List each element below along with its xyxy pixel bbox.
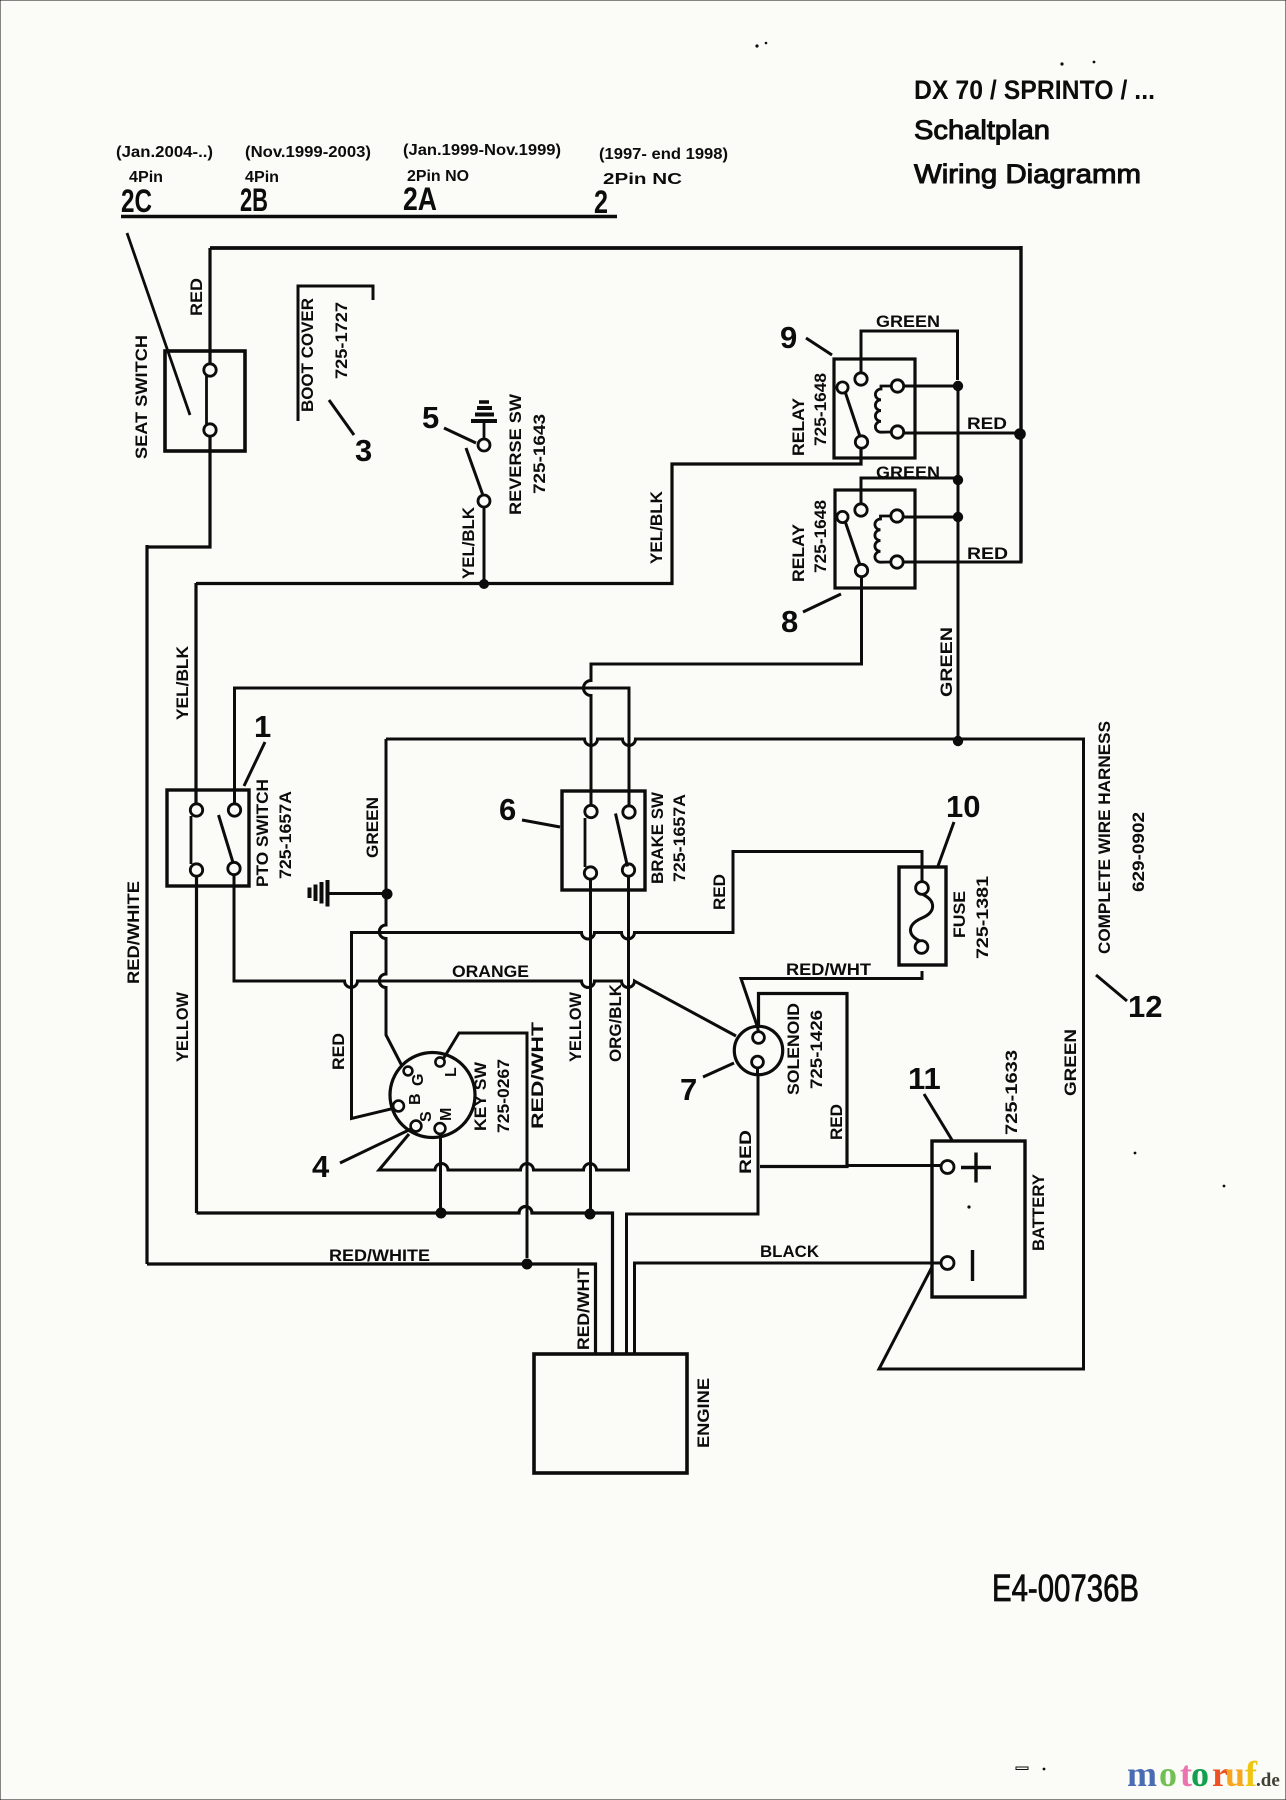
brake pin top-right xyxy=(623,806,635,818)
label RELAY 8 xyxy=(789,523,808,582)
header column 2C xyxy=(116,144,213,219)
label RED seat wire xyxy=(187,278,206,316)
svg-text:o: o xyxy=(1191,1754,1209,1794)
svg-text:8: 8 xyxy=(781,604,798,639)
wire BLACK battery to engine xyxy=(635,1263,942,1354)
PTO pin top-left xyxy=(190,804,202,816)
relay U9 box xyxy=(834,359,915,458)
svg-text:RED: RED xyxy=(967,414,1007,433)
reverse switch top contact xyxy=(478,439,490,451)
wire GREEN horizontal to right rail xyxy=(386,739,1084,1369)
svg-text:COMPLETE WIRE HARNESS: COMPLETE WIRE HARNESS xyxy=(1095,721,1114,954)
label 725-1633 xyxy=(1002,1050,1021,1135)
svg-text:BLACK: BLACK xyxy=(760,1242,820,1261)
relay 9 pin top xyxy=(855,373,867,385)
label 725-1727 xyxy=(332,302,351,379)
svg-text:6: 6 xyxy=(499,792,516,827)
node green relay 9 xyxy=(953,381,963,391)
label RED battery xyxy=(827,1104,846,1140)
svg-text:2: 2 xyxy=(594,184,608,220)
wire green vertical x958 xyxy=(957,386,960,741)
seat switch pin top xyxy=(204,364,216,376)
solenoid box xyxy=(759,994,848,1167)
label 725-0267 xyxy=(494,1059,513,1133)
relay U8 box xyxy=(835,490,915,588)
label RED/WHT key L xyxy=(528,1021,547,1129)
svg-text:725-1727: 725-1727 xyxy=(332,302,351,379)
reverse switch bottom contact xyxy=(478,495,490,507)
svg-text:GREEN: GREEN xyxy=(876,463,940,482)
fuse pin top xyxy=(916,882,929,895)
key pin label S xyxy=(418,1111,435,1122)
key pin G xyxy=(404,1067,413,1076)
svg-text:725-1648: 725-1648 xyxy=(811,373,830,446)
title Wiring Diagramm xyxy=(914,159,1141,189)
relay 8 coil pin top xyxy=(891,510,903,522)
leader 6 xyxy=(522,820,560,827)
leader 3 xyxy=(329,400,354,435)
wire reverse switch down xyxy=(483,507,486,584)
label 725-1648 relay 9 xyxy=(811,373,830,446)
label RED key switch xyxy=(329,1033,348,1070)
brake switch box xyxy=(562,791,645,890)
label PTO SWITCH xyxy=(253,779,272,887)
node bus M xyxy=(436,1208,447,1219)
label 8 xyxy=(781,604,798,639)
relay 8 pin bottom xyxy=(855,564,867,576)
header column 2B xyxy=(240,144,371,218)
svg-text:u: u xyxy=(1225,1754,1245,1794)
svg-text:7: 7 xyxy=(680,1072,697,1107)
label SOLENOID xyxy=(784,1003,803,1095)
svg-text:RELAY: RELAY xyxy=(789,523,808,582)
label GREEN relay 8 xyxy=(876,463,940,482)
svg-text:ORANGE: ORANGE xyxy=(452,962,529,981)
label E4-00736B xyxy=(992,1568,1139,1610)
svg-text:RED/WHITE: RED/WHITE xyxy=(329,1246,430,1265)
svg-text:REVERSE SW: REVERSE SW xyxy=(506,393,525,515)
ground chassis symbol xyxy=(310,880,385,907)
key pin label M xyxy=(438,1108,455,1121)
wire ORANGE from PTO xyxy=(234,875,736,1036)
svg-text:FUSE: FUSE xyxy=(950,891,969,938)
svg-text:RELAY: RELAY xyxy=(789,397,808,456)
svg-text:GREEN: GREEN xyxy=(937,627,956,697)
PTO pin bottom-left xyxy=(190,864,202,876)
label 725-1426 xyxy=(807,1010,826,1089)
key pin label B xyxy=(407,1093,424,1105)
PTO switch arm xyxy=(219,815,234,863)
svg-text:ENGINE: ENGINE xyxy=(694,1378,713,1448)
wire YELLOW from brake down xyxy=(589,879,592,1214)
wire left rail RED/WHITE xyxy=(145,545,148,1264)
label GREEN right rail xyxy=(1061,1029,1080,1096)
seat switch contact bar xyxy=(205,376,208,424)
svg-text:RED: RED xyxy=(827,1104,846,1140)
svg-text:725-1633: 725-1633 xyxy=(1002,1050,1021,1135)
PTO contact bar xyxy=(190,816,193,864)
svg-text:SOLENOID: SOLENOID xyxy=(784,1003,803,1095)
svg-text:RED/WHT: RED/WHT xyxy=(786,960,872,979)
wire GREEN vertical x386 xyxy=(379,739,402,1066)
svg-text:YELLOW: YELLOW xyxy=(173,991,192,1062)
engine box xyxy=(534,1354,687,1473)
wire RED/WHT fuse to solenoid xyxy=(741,971,922,1032)
svg-text:Wiring Diagramm: Wiring Diagramm xyxy=(914,159,1141,189)
relay 9 switch arm xyxy=(846,393,861,437)
label ORANGE xyxy=(452,962,529,981)
wire RED key to fuse xyxy=(352,852,923,1119)
leader 9 xyxy=(806,338,832,355)
label REVERSE SW xyxy=(506,393,525,515)
relay 9 coil pin bottom xyxy=(891,426,903,438)
wire seat switch to left rail xyxy=(147,436,210,547)
label ENGINE xyxy=(694,1378,713,1448)
svg-text:E4-00736B: E4-00736B xyxy=(992,1568,1139,1610)
svg-text:725-1657A: 725-1657A xyxy=(276,791,295,879)
label RED/WHT engine xyxy=(574,1267,593,1350)
label YELLOW brake xyxy=(566,991,585,1062)
svg-text:RED/WHITE: RED/WHITE xyxy=(124,881,143,984)
label BRAKE SW xyxy=(648,791,667,884)
svg-text:3: 3 xyxy=(355,433,372,468)
svg-text:5: 5 xyxy=(422,400,439,435)
relay 8 switch arm xyxy=(846,523,861,566)
label 3 xyxy=(355,433,372,468)
reverse switch arm xyxy=(466,448,483,494)
svg-text:2C: 2C xyxy=(121,183,152,219)
label YELLOW left rail xyxy=(173,991,192,1062)
wire bus yellow y1213 xyxy=(197,1207,613,1355)
svg-text:KEY SW: KEY SW xyxy=(471,1061,490,1131)
title DX 70 / SPRINTO xyxy=(914,75,1155,105)
relay 8 pin top xyxy=(855,504,867,516)
node bus yellow xyxy=(585,1209,596,1220)
label 725-1657A brake xyxy=(670,794,689,882)
brake pin top-left xyxy=(585,805,597,817)
svg-text:(1997- end 1998): (1997- end 1998) xyxy=(599,146,728,163)
paper specks xyxy=(755,42,1225,1771)
svg-text:RED/WHT: RED/WHT xyxy=(528,1021,547,1129)
header column 2 xyxy=(594,146,728,220)
header underline xyxy=(121,215,617,218)
brake contact bar xyxy=(584,818,587,867)
relay 8 coil xyxy=(875,516,891,562)
label BLACK xyxy=(760,1242,820,1261)
key pin label G xyxy=(410,1074,427,1086)
svg-text:B: B xyxy=(407,1093,424,1105)
key pin S xyxy=(411,1121,422,1132)
label 725-1381 xyxy=(973,876,992,959)
svg-text:YEL/BLK: YEL/BLK xyxy=(459,506,478,579)
svg-text:RED: RED xyxy=(967,544,1008,563)
wire lower RED/WHITE bus xyxy=(147,1264,596,1354)
svg-text:725-1648: 725-1648 xyxy=(811,500,830,573)
svg-text:o: o xyxy=(1159,1754,1177,1794)
label 1 xyxy=(254,709,271,744)
svg-text:RED: RED xyxy=(187,278,206,316)
node green loop relay 8 xyxy=(953,475,963,485)
svg-text:YELLOW: YELLOW xyxy=(566,991,585,1062)
wire right top rail x=1021 xyxy=(1019,246,1022,562)
label RED relay 8 xyxy=(967,544,1008,563)
fuse element xyxy=(910,895,932,942)
node junction reverse/yelblk xyxy=(479,579,489,589)
wire battery plus RED xyxy=(847,1164,941,1167)
wire relay 9 coil bottom RED xyxy=(904,432,1022,435)
label 9 xyxy=(780,320,797,355)
node lower bus redwht xyxy=(522,1259,533,1270)
header column 2A xyxy=(403,142,561,217)
brake pin bottom-left xyxy=(584,867,596,879)
key pin M xyxy=(435,1123,446,1134)
label ORG/BLK xyxy=(606,983,625,1062)
svg-text:11: 11 xyxy=(908,1061,941,1096)
svg-text:12: 12 xyxy=(1128,989,1162,1024)
label BOOT COVER xyxy=(298,298,317,412)
leader 7 xyxy=(703,1063,734,1077)
wire YEL/BLK horizontal xyxy=(196,448,861,584)
node green x958 bottom xyxy=(953,736,963,746)
label RED relay 9 xyxy=(967,414,1007,433)
wire PTO to brake top right xyxy=(235,688,630,806)
wire YEL/BLK left rail segment xyxy=(194,583,197,804)
label 7 xyxy=(680,1072,697,1107)
key switch body xyxy=(390,1053,475,1138)
label COMPLETE WIRE HARNESS xyxy=(1095,721,1114,954)
relay 9 pin left xyxy=(837,382,848,393)
label RED/WHITE lower xyxy=(329,1246,430,1265)
svg-text:RED: RED xyxy=(710,874,729,910)
relay 8 coil pin bottom xyxy=(891,556,903,568)
battery minus sign xyxy=(971,1250,974,1281)
label YEL/BLK left xyxy=(173,645,192,720)
svg-text:725-0267: 725-0267 xyxy=(494,1059,513,1133)
svg-text:725-1426: 725-1426 xyxy=(807,1010,826,1089)
label 12 xyxy=(1128,989,1162,1024)
wire key L to RED/WHT xyxy=(444,1033,528,1258)
leader from 2C to seat switch xyxy=(127,233,190,415)
svg-text:2B: 2B xyxy=(240,182,268,218)
wire relay 8 coil top to green rail xyxy=(903,516,958,519)
label SEAT SWITCH xyxy=(132,335,151,459)
svg-text:G: G xyxy=(410,1074,427,1086)
PTO pin bottom-right xyxy=(228,862,240,874)
boot cover bracket xyxy=(298,286,373,421)
svg-text:BATTERY: BATTERY xyxy=(1029,1173,1048,1251)
leader 4 to S xyxy=(340,1129,411,1163)
svg-text:1: 1 xyxy=(254,709,271,744)
svg-text:BRAKE SW: BRAKE SW xyxy=(648,791,667,884)
fuse pin bottom xyxy=(915,941,928,954)
title Schaltplan xyxy=(914,115,1050,145)
wire relay 8 coil bottom RED xyxy=(903,430,1021,562)
svg-text:m: m xyxy=(1127,1754,1157,1794)
label 725-1648 relay 8 xyxy=(811,500,830,573)
svg-text:M: M xyxy=(438,1108,455,1121)
wire YELLOW rail from PTO down xyxy=(195,876,198,1213)
label 725-1657A PTO xyxy=(276,791,295,879)
label 5 xyxy=(422,400,439,435)
svg-text:Schaltplan: Schaltplan xyxy=(914,115,1050,145)
svg-text:(Jan.2004-..): (Jan.2004-..) xyxy=(116,144,213,161)
svg-text:RED: RED xyxy=(329,1033,348,1070)
label 10 xyxy=(946,789,980,824)
reverse switch chassis symbol xyxy=(471,402,497,439)
svg-text:(Jan.1999-Nov.1999): (Jan.1999-Nov.1999) xyxy=(403,142,561,159)
logo motoruf.de xyxy=(1127,1754,1280,1794)
wire ORG/BLK from brake down xyxy=(379,876,629,1170)
svg-text:L: L xyxy=(443,1067,460,1077)
PTO switch box xyxy=(167,790,249,886)
wire relay 9 coil top to green node xyxy=(904,385,959,388)
leader 11 xyxy=(924,1094,952,1140)
label 4 xyxy=(312,1149,330,1184)
wire relay 8 pin bottom to brake switch xyxy=(584,577,862,807)
node RED rail xyxy=(1014,428,1026,440)
key pin label L xyxy=(443,1067,460,1077)
key pin B xyxy=(393,1101,404,1112)
svg-text:GREEN: GREEN xyxy=(1061,1029,1080,1096)
relay 9 pin bottom xyxy=(855,436,867,448)
leader 1 xyxy=(244,742,265,786)
label 629-0902 xyxy=(1129,812,1148,892)
label YEL/BLK right xyxy=(647,490,666,564)
wire relay 9 green loop xyxy=(861,331,958,380)
wire solenoid bottom to engine xyxy=(627,1068,759,1354)
label 11 xyxy=(908,1061,941,1096)
label RED/WHT fuse xyxy=(786,960,872,979)
battery pin plus xyxy=(941,1161,954,1174)
svg-text:DX 70 / SPRINTO / ...: DX 70 / SPRINTO / ... xyxy=(914,75,1155,105)
label RELAY 9 xyxy=(789,397,808,456)
wire relay 8 green loop xyxy=(861,478,958,504)
wire battery minus to green harness xyxy=(879,1267,1085,1369)
svg-text:(Nov.1999-2003): (Nov.1999-2003) xyxy=(245,144,371,161)
label YEL/BLK reverse xyxy=(459,506,478,579)
svg-text:2A: 2A xyxy=(403,181,437,217)
leader 8 xyxy=(803,594,841,612)
label RED fuse feed xyxy=(710,874,729,910)
label GREEN x386 xyxy=(363,797,382,858)
svg-text:10: 10 xyxy=(946,789,980,824)
svg-text:PTO SWITCH: PTO SWITCH xyxy=(253,779,272,887)
svg-text:2Pin NC: 2Pin NC xyxy=(603,171,682,188)
svg-text:GREEN: GREEN xyxy=(363,797,382,858)
seat switch pin bottom xyxy=(204,424,216,436)
brake pin bottom-right xyxy=(622,864,634,876)
svg-text:YEL/BLK: YEL/BLK xyxy=(173,645,192,720)
node ground junction xyxy=(382,889,393,900)
svg-text:GREEN: GREEN xyxy=(876,312,940,331)
battery pin minus xyxy=(941,1257,954,1270)
svg-text:9: 9 xyxy=(780,320,797,355)
leader 5 xyxy=(444,428,476,443)
battery plus sign xyxy=(961,1153,991,1183)
leader 10 xyxy=(938,822,954,866)
label 725-1643 xyxy=(530,414,549,494)
svg-text:629-0902: 629-0902 xyxy=(1129,812,1148,892)
svg-text:ORG/BLK: ORG/BLK xyxy=(606,983,625,1062)
svg-text:RED/WHT: RED/WHT xyxy=(574,1267,593,1350)
key pin L xyxy=(435,1057,444,1066)
label GREEN relay 9 xyxy=(876,312,940,331)
svg-text:SEAT SWITCH: SEAT SWITCH xyxy=(132,335,151,459)
label BATTERY xyxy=(1029,1173,1048,1251)
relay 9 coil pin top xyxy=(891,380,903,392)
label RED solenoid xyxy=(736,1130,755,1174)
label FUSE xyxy=(950,891,969,938)
svg-text:BOOT COVER: BOOT COVER xyxy=(298,298,317,412)
svg-text:725-1643: 725-1643 xyxy=(530,414,549,494)
svg-text:4: 4 xyxy=(312,1149,330,1184)
svg-text:.de: .de xyxy=(1256,1770,1280,1791)
solenoid pin bottom xyxy=(752,1056,764,1068)
svg-text:S: S xyxy=(418,1111,435,1122)
wire top bus RED xyxy=(210,246,1021,250)
svg-text:725-1381: 725-1381 xyxy=(973,876,992,959)
leader 12 xyxy=(1096,975,1127,1001)
solenoid pin top xyxy=(753,1032,765,1044)
wire key M down to bus xyxy=(439,1134,442,1208)
solenoid body xyxy=(734,1026,782,1074)
label GREEN vertical x958 xyxy=(937,627,956,697)
wire RED into seat switch xyxy=(208,248,211,365)
brake switch arm xyxy=(616,814,628,867)
relay 8 pin left xyxy=(837,511,848,522)
label RED/WHITE left rail xyxy=(124,881,143,984)
svg-text:RED: RED xyxy=(736,1130,755,1174)
relay 9 coil xyxy=(875,386,891,432)
seat switch box xyxy=(165,351,245,451)
svg-text:YEL/BLK: YEL/BLK xyxy=(647,490,666,564)
battery box xyxy=(932,1141,1025,1297)
PTO pin top-right xyxy=(228,804,240,816)
fuse box xyxy=(899,867,946,965)
node green coil relay 8 xyxy=(953,512,963,522)
label 6 xyxy=(499,792,516,827)
svg-text:725-1657A: 725-1657A xyxy=(670,794,689,882)
label KEY SW xyxy=(471,1061,490,1131)
